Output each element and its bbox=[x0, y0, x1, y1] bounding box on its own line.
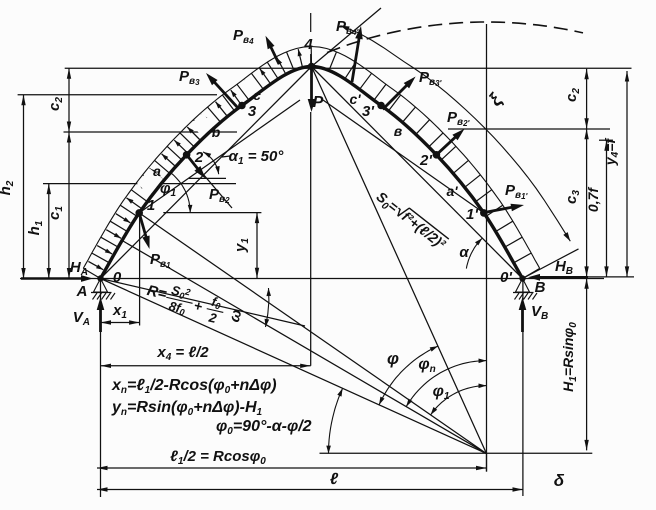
load P at crown bbox=[308, 70, 324, 112]
support B pin bbox=[513, 279, 537, 300]
svg-text:0': 0' bbox=[500, 269, 512, 286]
svg-text:x4 = ℓ/2: x4 = ℓ/2 bbox=[156, 344, 209, 363]
svg-text:a': a' bbox=[446, 183, 458, 199]
label 2 bbox=[194, 149, 204, 166]
h1 top reference line bbox=[43, 183, 236, 185]
formula xn bbox=[111, 377, 277, 396]
load Pв4' bbox=[336, 18, 363, 82]
radius C-n bbox=[123, 241, 487, 454]
svg-text:δ: δ bbox=[554, 471, 565, 490]
svg-text:4: 4 bbox=[303, 36, 313, 53]
y1 top reference line through point 1 bbox=[163, 212, 261, 214]
dimension c2 right bbox=[563, 69, 589, 129]
dimension h1 bbox=[26, 184, 51, 279]
label 0' bbox=[500, 269, 512, 286]
svg-text:φ: φ bbox=[387, 349, 399, 368]
label 1' bbox=[466, 206, 478, 223]
chord A-4 bbox=[101, 67, 312, 279]
load Pв1' bbox=[487, 182, 529, 212]
load Pв4 bbox=[233, 27, 279, 64]
angle omega arc bbox=[226, 288, 271, 327]
angle phi_n arc bbox=[406, 356, 486, 407]
S dimension terminator from 4 bbox=[312, 8, 382, 67]
svg-text:y4=f: y4=f bbox=[602, 138, 621, 167]
load Pв2' bbox=[436, 109, 470, 155]
dimension H1 bbox=[560, 278, 589, 450]
reaction VB bbox=[519, 297, 549, 332]
label c' bbox=[349, 91, 361, 107]
0.7f top tick bbox=[599, 139, 613, 141]
svg-text:A: A bbox=[76, 283, 88, 300]
h2 top reference line bbox=[18, 94, 217, 96]
load band outer edge bbox=[83, 47, 539, 269]
dimension y1 bbox=[232, 213, 259, 279]
R label line from A bbox=[101, 279, 306, 327]
c2 bottom reference line left bbox=[64, 131, 238, 133]
formula yn bbox=[111, 399, 263, 418]
label c bbox=[253, 87, 261, 103]
svg-text:α: α bbox=[459, 244, 469, 261]
svg-text:2': 2' bbox=[419, 152, 432, 169]
label 1 bbox=[147, 197, 155, 214]
load Pв1 bbox=[139, 213, 171, 270]
label B bbox=[535, 279, 546, 296]
radius C-0 (A-C line) bbox=[101, 279, 487, 454]
svg-text:в: в bbox=[394, 123, 403, 139]
gap cell a bbox=[137, 168, 163, 194]
label delta bbox=[554, 471, 565, 490]
radius C-1 bbox=[139, 213, 486, 454]
S0 formula bbox=[372, 187, 450, 255]
label a' bbox=[446, 183, 458, 199]
angle phi_1 arc at point 1 bbox=[160, 173, 192, 213]
svg-text:a: a bbox=[153, 163, 161, 179]
load Pв2 bbox=[187, 155, 230, 205]
arc length dimension S bbox=[340, 26, 570, 242]
line from point 1 up-right bbox=[139, 100, 300, 213]
thrust HB bbox=[528, 258, 588, 281]
dimension l bbox=[97, 471, 523, 492]
dimension y4=f bbox=[602, 71, 629, 277]
arch axis bbox=[101, 67, 523, 279]
crown axis dash bbox=[310, 13, 312, 67]
load band dividers bbox=[83, 47, 539, 279]
alpha1 horizontal reference bbox=[189, 177, 226, 179]
label 3 bbox=[248, 103, 257, 120]
S label on arc bbox=[485, 89, 508, 110]
angle phi arc bbox=[379, 346, 438, 405]
label A bbox=[76, 283, 88, 300]
dashed continuation arc of circle bbox=[327, 22, 583, 53]
radius C-4 bbox=[312, 67, 487, 454]
c2-c3 boundary reference line right bbox=[448, 128, 610, 130]
svg-text:b: b bbox=[212, 124, 221, 140]
reaction VA bbox=[73, 297, 105, 332]
arch node dots bbox=[97, 63, 525, 282]
dimension 0.7f bbox=[585, 140, 609, 277]
right bottom terminator line bbox=[571, 276, 634, 278]
label b' bbox=[394, 123, 403, 139]
svg-text:c: c bbox=[253, 87, 261, 103]
angle alpha arc at B bbox=[459, 238, 482, 269]
label alpha1 bbox=[222, 148, 284, 167]
dimension c1 bbox=[46, 132, 71, 279]
crown level line y4 bbox=[65, 67, 632, 69]
formula phi0 bbox=[216, 418, 312, 437]
line from point 1-prime up-left bbox=[323, 100, 484, 213]
vertical below C bbox=[486, 454, 488, 472]
dimension c2 left bbox=[46, 68, 71, 132]
springing line through supports bbox=[20, 278, 604, 280]
load band small arrows bbox=[88, 49, 302, 270]
center level line right bbox=[320, 452, 593, 454]
gap cell c bbox=[238, 75, 261, 99]
label a bbox=[153, 163, 161, 179]
tangent at point 2 bbox=[187, 155, 232, 208]
label l1/2 bbox=[170, 448, 266, 467]
dimension c3 bbox=[563, 129, 589, 277]
svg-text:α1 = 50°: α1 = 50° bbox=[229, 148, 285, 167]
S dimension terminator from B bbox=[523, 249, 579, 279]
label 0 bbox=[113, 269, 122, 286]
label 3' bbox=[362, 103, 374, 120]
vertical below A bbox=[100, 279, 102, 498]
svg-text:ℓ: ℓ bbox=[330, 471, 339, 488]
svg-text:xn=ℓ1/2-Rcos(φ0+nΔφ): xn=ℓ1/2-Rcos(φ0+nΔφ) bbox=[111, 377, 277, 396]
svg-text:1': 1' bbox=[466, 206, 478, 223]
extension line below point 1 bbox=[139, 213, 141, 326]
svg-text:P: P bbox=[313, 94, 324, 111]
dimension l1/2 bbox=[97, 466, 487, 470]
svg-text:B: B bbox=[535, 279, 546, 296]
crown vertical extension bbox=[310, 112, 312, 366]
angle alpha1 arc bbox=[203, 152, 220, 174]
svg-text:yn=Rsin(φ0+nΔφ)-H1: yn=Rsin(φ0+nΔφ)-H1 bbox=[111, 399, 263, 418]
R formula bbox=[143, 277, 227, 327]
gap cell b bbox=[191, 113, 215, 137]
svg-text:3: 3 bbox=[248, 103, 257, 120]
label b bbox=[212, 124, 221, 140]
svg-text:3': 3' bbox=[362, 103, 374, 120]
svg-text:0: 0 bbox=[113, 269, 122, 286]
angle phi0 arc bbox=[326, 388, 342, 453]
load Pв3' bbox=[383, 69, 443, 109]
svg-text:ℓ1/2 = Rcosφ0: ℓ1/2 = Rcosφ0 bbox=[170, 448, 266, 467]
dimension h2 bbox=[0, 95, 26, 279]
vertical below B bbox=[522, 279, 524, 497]
svg-text:0,7f: 0,7f bbox=[585, 187, 601, 212]
angle phi_1 arc at C bbox=[431, 383, 487, 415]
svg-text:2: 2 bbox=[194, 149, 204, 166]
load Pв3 bbox=[179, 68, 238, 108]
svg-text:1: 1 bbox=[147, 197, 155, 214]
chord 4-B (S0) bbox=[312, 67, 523, 279]
svg-text:c': c' bbox=[349, 91, 361, 107]
support A pin bbox=[91, 279, 115, 300]
vertical through center C bbox=[486, 24, 488, 472]
label 2' bbox=[419, 152, 432, 169]
dimension x1 bbox=[101, 302, 140, 325]
thrust HA bbox=[21, 259, 93, 282]
dimension x4 bbox=[101, 344, 311, 368]
label 4 bbox=[303, 36, 313, 53]
